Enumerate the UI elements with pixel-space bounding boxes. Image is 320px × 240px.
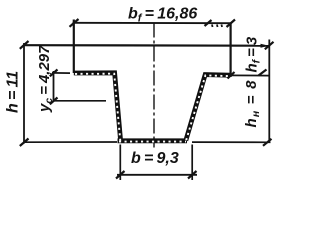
tick b right — [188, 171, 197, 179]
tick bf mid-right — [205, 20, 212, 26]
yc top extension — [52, 72, 70, 74]
b right extension line — [191, 145, 193, 181]
section centerline (dash-dot axis) — [153, 23, 155, 148]
stray scan marks below bf line — [212, 25, 222, 28]
beam top edge with left/right extension line — [24, 44, 269, 47]
tick flange bottom at right dim — [259, 70, 267, 76]
svg-text:h = 11: h = 11 — [5, 71, 22, 113]
svg-text:hf = 3: hf = 3 — [244, 36, 263, 72]
svg-text:bf = 16,86: bf = 16,86 — [128, 6, 197, 25]
b left extension line — [119, 145, 121, 181]
tick b left — [116, 171, 125, 179]
dimension ticks (oblique slashes) — [20, 19, 274, 179]
tick bf right corner — [227, 20, 236, 28]
svg-text:hн = 8: hн = 8 — [243, 79, 262, 127]
tick yc bottom — [50, 98, 58, 105]
tick h bottom — [20, 139, 29, 147]
arrowhead at top-right extension — [261, 44, 270, 48]
web hatched outline (thick dotted band) — [74, 73, 230, 141]
centroid axis line — [54, 100, 107, 102]
svg-text:b = 9,3: b = 9,3 — [131, 150, 179, 167]
right dimension line hf/hn — [268, 40, 270, 144]
bottom right extension — [192, 141, 271, 143]
tick yc top — [50, 70, 58, 77]
wire — [24, 20, 271, 181]
tick hn bottom — [263, 139, 272, 146]
h dimension line — [23, 43, 25, 144]
flange left edge — [73, 20, 75, 74]
svg-text:yc = 4,297: yc = 4,297 — [36, 45, 55, 113]
bf dimension line — [73, 22, 232, 24]
tick bf left — [70, 19, 79, 27]
flange bottom right extension — [231, 74, 270, 76]
b dimension line — [117, 174, 197, 176]
tick flange bottom inner — [228, 72, 235, 79]
yc dimension line — [53, 71, 55, 101]
flange right edge — [230, 23, 232, 77]
h bottom extension line — [24, 141, 118, 143]
tick h top — [20, 41, 29, 49]
tick hf top (arrow) — [265, 42, 274, 50]
